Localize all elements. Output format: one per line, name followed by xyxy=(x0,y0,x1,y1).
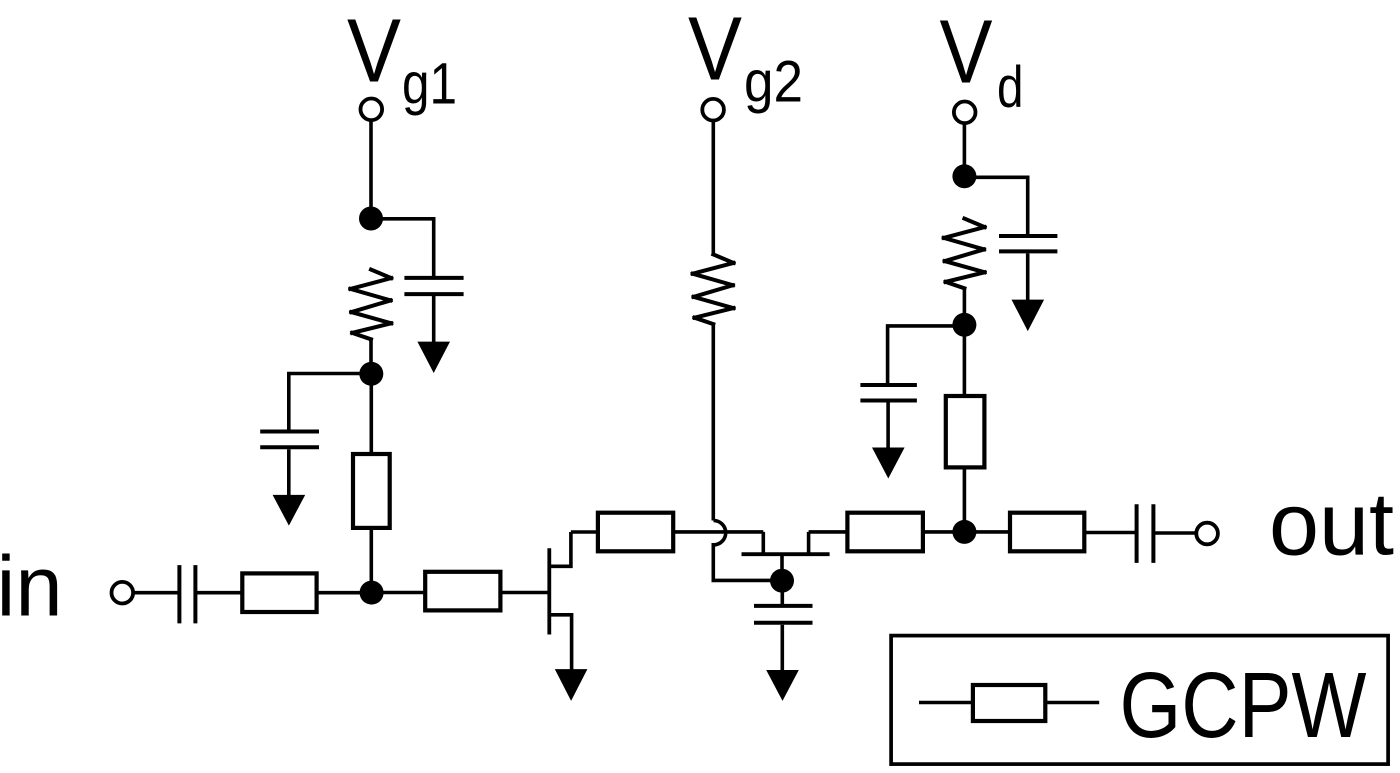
GCPW section TL6 (drain feed, vertical) xyxy=(946,396,985,467)
wire TL6 to node G xyxy=(963,467,967,532)
capacitor C3 (Vg2 bypass) xyxy=(754,606,813,623)
capacitor C1 xyxy=(404,278,463,294)
ground arrow (C4) xyxy=(1012,300,1045,332)
svg-text:g1: g1 xyxy=(402,52,457,117)
wire C2 to ground xyxy=(287,449,291,496)
ground arrow (C1) xyxy=(417,342,450,373)
svg-text:d: d xyxy=(997,55,1024,120)
wire TL5 to node G xyxy=(923,530,965,534)
capacitor Cout (DC block) xyxy=(1137,504,1154,563)
wire hop to node D xyxy=(713,543,782,580)
capacitor Cin (DC block) xyxy=(179,565,195,623)
transistor Q2 gate bar xyxy=(742,552,830,556)
capacitor C2 xyxy=(260,432,319,448)
wire node B to C2 xyxy=(289,374,371,432)
node E (Vd/Rd/C4 junction) xyxy=(952,164,976,188)
wire node G to TL7 xyxy=(964,530,1010,534)
ground arrow (C2) xyxy=(273,495,306,526)
legend wire left xyxy=(919,701,973,705)
label Vg1 xyxy=(347,2,457,117)
label Vd xyxy=(940,2,1024,120)
svg-text:GCPW: GCPW xyxy=(1120,653,1367,757)
wire Q2 drain to TL5 xyxy=(809,530,848,534)
resistor R1 xyxy=(350,270,391,340)
node B (R1/C2/TL junction) xyxy=(359,362,383,386)
ground arrow (C3) xyxy=(766,670,799,701)
wire C1 to ground xyxy=(432,296,436,344)
svg-text:in: in xyxy=(0,539,63,634)
wire TL2 to node C xyxy=(317,591,372,595)
node A (Vg1/R1/C1 junction) xyxy=(359,207,383,231)
resistor Rg2 xyxy=(693,254,734,324)
wire in port to Cin xyxy=(132,591,179,595)
wire node E to C4 xyxy=(964,177,1027,236)
capacitor C5 xyxy=(860,385,917,401)
svg-text:V: V xyxy=(347,2,401,102)
wire TL1 to node C xyxy=(369,528,373,593)
wire node B to TL1 xyxy=(369,374,373,454)
resistor Rd xyxy=(944,219,985,289)
wire TL7 to Cout xyxy=(1084,531,1136,535)
wire node F to C5 xyxy=(888,326,965,385)
wire Vg2 port to Rg2 xyxy=(711,120,715,255)
wire hop arc (Vg2 crosses interstage line) xyxy=(714,521,726,545)
svg-text:g2: g2 xyxy=(744,49,803,114)
legend wire right xyxy=(1045,701,1099,705)
GCPW section TL5 (Q2 drain to node G) xyxy=(847,513,923,552)
wire node C to TL3 xyxy=(372,591,426,595)
wire node D to C3 xyxy=(780,581,784,607)
wire Rg2 to hop arc xyxy=(711,324,715,521)
node F (Rd/C5/TL junction) xyxy=(952,313,976,337)
wire Q1 drain to TL4 xyxy=(571,530,598,534)
capacitor C4 xyxy=(999,236,1057,251)
transistor Q2 source stub xyxy=(761,532,765,554)
node C (input/TL1 junction) xyxy=(360,581,384,605)
wire Cin to TL2 xyxy=(195,591,242,595)
wire Rd to node F xyxy=(963,288,967,326)
svg-text:V: V xyxy=(688,0,742,100)
GCPW section TL4 (interstage) xyxy=(598,513,673,552)
label Vg2 xyxy=(688,0,803,114)
GCPW section TL2 (input) xyxy=(242,573,316,612)
GCPW section TL3 (to Q1 gate) xyxy=(425,572,500,611)
wire C5 to ground xyxy=(886,403,890,450)
wire TL4 to Q2 source (crosses under Vg2 hop) xyxy=(673,530,763,534)
wire C3 to ground xyxy=(780,625,784,672)
wire C4 to ground xyxy=(1026,253,1030,301)
GCPW section TL7 (output) xyxy=(1010,513,1084,552)
wire node F to TL6 xyxy=(963,325,967,396)
wire Vd port to node E xyxy=(963,122,967,178)
svg-text:out: out xyxy=(1269,474,1394,574)
transistor Q1 source stub xyxy=(551,615,572,671)
transistor Q2 gate lead xyxy=(780,554,784,581)
transistor Q1 drain stub xyxy=(551,532,571,566)
port Vg2 xyxy=(702,99,724,121)
port out xyxy=(1196,523,1218,545)
wire Vg1 port to node A xyxy=(369,119,373,220)
legend box xyxy=(891,636,1388,765)
port in xyxy=(112,582,134,604)
GCPW section TL1 (Vg1 feed, vertical) xyxy=(353,454,390,528)
transistor Q1 gate bar xyxy=(547,548,551,634)
wire Cout to out port xyxy=(1153,531,1197,535)
transistor Q2 drain stub xyxy=(807,532,811,554)
node D (Q2 gate / C3 junction) xyxy=(770,569,794,593)
svg-text:V: V xyxy=(940,2,993,102)
wire node A to C1 xyxy=(371,219,434,278)
ground arrow (C5) xyxy=(872,448,905,479)
legend GCPW rectangle xyxy=(973,685,1045,721)
port Vg1 xyxy=(361,99,383,121)
wire TL3 to Q1 gate xyxy=(500,591,550,595)
port Vd xyxy=(954,102,976,124)
node G (output junction) xyxy=(952,520,976,544)
ground arrow (Q1 source) xyxy=(555,669,588,701)
wire R1 to node B xyxy=(369,339,373,374)
